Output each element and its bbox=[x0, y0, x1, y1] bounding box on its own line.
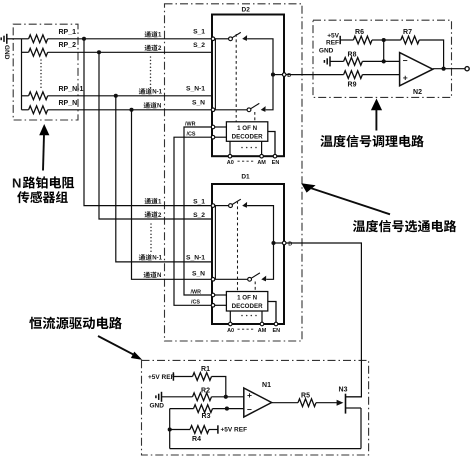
wire R3 to N1 inverting bbox=[213, 408, 244, 410]
svg-text:+5V REF: +5V REF bbox=[221, 427, 248, 434]
resistor R3 bbox=[194, 405, 213, 420]
wire GND to sensor bus bbox=[7, 38, 22, 40]
resistor R9 bbox=[344, 71, 363, 89]
label D1 bbox=[241, 173, 250, 180]
wire N1 output to R5 bbox=[272, 402, 298, 404]
svg-text:R9: R9 bbox=[348, 81, 357, 88]
wire N2 output bbox=[433, 68, 465, 70]
wire R7 feedback to output bbox=[419, 40, 443, 69]
svg-text:RP_1: RP_1 bbox=[59, 29, 77, 36]
D2 input column line bbox=[214, 39, 216, 110]
pin D output (D1) bbox=[282, 241, 286, 245]
label 通道N (D2 input) bbox=[144, 102, 162, 110]
ellipsis A0-AM labels D2 bbox=[238, 161, 254, 162]
svg-text:R1: R1 bbox=[201, 366, 210, 373]
svg-text:+: + bbox=[247, 390, 252, 400]
label 恒流源驱动电路 bbox=[29, 317, 122, 330]
svg-text:D2: D2 bbox=[242, 7, 251, 14]
svg-text:S_1: S_1 bbox=[193, 29, 205, 36]
label 通道2 (D2 input) bbox=[145, 45, 162, 53]
wire inverting node to N2 bbox=[384, 60, 400, 62]
svg-text:R3: R3 bbox=[202, 413, 211, 420]
D1 input column line bbox=[214, 206, 216, 280]
svg-text:RP_N-1: RP_N-1 bbox=[59, 86, 84, 93]
svg-text:S_N-1: S_N-1 bbox=[186, 255, 205, 262]
svg-text:S_N-1: S_N-1 bbox=[186, 86, 205, 93]
label GND rotated bbox=[3, 45, 10, 60]
svg-text:N: N bbox=[12, 175, 21, 190]
wire channel N drop to D1 bbox=[132, 110, 213, 279]
svg-text:N-1: N-1 bbox=[152, 255, 162, 262]
arrow to selector circuit bbox=[301, 183, 390, 214]
op-amp N2 bbox=[400, 53, 433, 86]
wire D2 bus to pin bbox=[273, 74, 284, 76]
pin A0 (D1) bbox=[227, 311, 234, 334]
label 通道1 (D2 input) bbox=[145, 31, 162, 39]
pin /CS (D2) bbox=[187, 132, 227, 140]
ellipsis decoder D2 pins bbox=[241, 147, 257, 149]
pin /WR (D1) bbox=[191, 289, 227, 297]
svg-text:N: N bbox=[157, 103, 161, 110]
wire R8 to inverting node bbox=[362, 60, 383, 62]
wire R1 to noninverting node bbox=[212, 377, 226, 397]
wire R9 to N2 noninverting bbox=[362, 74, 399, 76]
svg-text:RP_N: RP_N bbox=[59, 100, 78, 107]
node junction channel 1 bbox=[82, 37, 86, 41]
wire R4 lead bbox=[170, 429, 190, 431]
svg-text:A0: A0 bbox=[227, 328, 234, 334]
svg-text:+: + bbox=[403, 72, 408, 82]
pin D output (D2) bbox=[282, 73, 286, 77]
multiplexer D1 box bbox=[212, 184, 284, 324]
svg-text:GND: GND bbox=[319, 48, 334, 55]
wire D2 common bus top bbox=[247, 39, 273, 75]
node junction channel N bbox=[129, 108, 133, 112]
node inverting input N2 bbox=[382, 59, 386, 63]
svg-text:RP_2: RP_2 bbox=[59, 42, 77, 49]
node A (R6/R7 junction) bbox=[382, 38, 386, 42]
wire R6 to node A bbox=[372, 39, 384, 41]
svg-text:DECODER: DECODER bbox=[232, 303, 263, 310]
resistor RP_N-1 bbox=[22, 86, 84, 100]
label N1 bbox=[262, 382, 271, 389]
ground GND (conditioning) bbox=[319, 48, 334, 67]
arrow to current source circuit bbox=[98, 336, 142, 360]
svg-text:+5V: +5V bbox=[327, 33, 339, 40]
wire channel N-1 drop to D1 bbox=[116, 96, 212, 262]
svg-text:D: D bbox=[287, 73, 291, 79]
wire R4 to +5V REF bbox=[209, 429, 218, 431]
wire node A to R7 bbox=[384, 39, 401, 41]
wire channel N (sensor to D2 S_N) bbox=[48, 109, 212, 111]
wire /WR bus (D2 to D1) bbox=[184, 127, 212, 295]
svg-text:R8: R8 bbox=[348, 51, 357, 58]
resistor RP_1 bbox=[22, 29, 77, 43]
pin AM (D1) bbox=[258, 311, 267, 334]
wire +5V REF to R1 bbox=[173, 376, 192, 378]
wire R2 to N1 noninverting bbox=[212, 396, 244, 398]
resistor R7 bbox=[401, 29, 419, 44]
power +5V REF (R4) bbox=[218, 425, 247, 433]
label 温度信号调理电路 bbox=[320, 135, 423, 147]
pin S_N (D2) bbox=[192, 100, 215, 112]
svg-text:1 OF N: 1 OF N bbox=[237, 295, 257, 302]
sensor group box (dash-dot) bbox=[13, 24, 78, 120]
switch S_N (D2) bbox=[215, 103, 266, 112]
svg-text:EN: EN bbox=[272, 328, 280, 334]
pin S_2 (D2) bbox=[193, 42, 205, 49]
svg-text:S_2: S_2 bbox=[193, 212, 205, 219]
wire D1 bus to pin bbox=[274, 242, 285, 244]
ellipsis sensor box bbox=[40, 59, 42, 88]
resistor R1 bbox=[193, 366, 212, 380]
wire +5V REF to R6 bbox=[340, 39, 353, 41]
node D2 output junction bbox=[271, 73, 275, 77]
svg-text:/WR: /WR bbox=[191, 289, 202, 295]
svg-text:−: − bbox=[247, 405, 252, 415]
svg-text:R6: R6 bbox=[355, 29, 364, 36]
node R4 junction bbox=[168, 427, 172, 431]
label D (D1 output) bbox=[288, 242, 292, 248]
selector circuit box (dash-dot) bbox=[165, 4, 303, 341]
svg-text:N3: N3 bbox=[339, 387, 348, 394]
switch S_1 (D1) bbox=[215, 199, 247, 208]
label 通道N-1 (D1 input) bbox=[139, 254, 163, 262]
decoder D2 (1 OF N DECODER) bbox=[226, 122, 267, 142]
svg-text:S_1: S_1 bbox=[193, 199, 205, 206]
resistor R6 bbox=[353, 29, 372, 44]
D2 control dashed line S_1 bbox=[235, 34, 237, 122]
wire channel 2 (sensor to D2 S_2) bbox=[48, 51, 212, 53]
wire channel 1 drop to D1 bbox=[84, 39, 212, 206]
wire node A to inverting node bbox=[383, 40, 385, 61]
ellipsis channels top bbox=[150, 56, 152, 88]
D1 control dashed line S_N bbox=[254, 282, 256, 292]
wire D2 output to R9 bbox=[286, 74, 343, 76]
ellipsis A0-AM labels D1 bbox=[238, 329, 254, 330]
svg-text:/CS: /CS bbox=[191, 300, 200, 306]
arrow to sensor group bbox=[39, 124, 49, 171]
wire channel 1 (sensor to D2 S_1) bbox=[48, 38, 212, 40]
svg-text:−: − bbox=[403, 56, 408, 66]
pin S_N (D1) bbox=[192, 270, 215, 281]
transistor N3 bbox=[337, 387, 362, 414]
svg-text:S_N: S_N bbox=[192, 100, 205, 107]
wire GND to R8 bbox=[330, 60, 344, 62]
svg-text:AM: AM bbox=[257, 160, 266, 166]
pin AM (D2) bbox=[257, 141, 266, 166]
decoder D1 (1 OF N DECODER) bbox=[226, 292, 267, 312]
resistor R5 bbox=[298, 393, 316, 407]
resistor R2 bbox=[193, 388, 212, 401]
terminal output (conditioning) bbox=[465, 67, 469, 71]
node noninverting input N1 bbox=[224, 395, 228, 399]
svg-text:A0: A0 bbox=[227, 160, 234, 166]
ellipsis channels lower bbox=[150, 223, 152, 252]
node junction channel N-1 bbox=[114, 94, 118, 98]
svg-text:N: N bbox=[157, 272, 161, 279]
current source box (dash-dot) bbox=[142, 360, 369, 455]
wire D1 common bus bottom bbox=[266, 243, 273, 279]
D2 control dashed line S_N bbox=[254, 112, 256, 122]
pin /CS (D1) bbox=[191, 300, 226, 308]
ground GND (sensor group) bbox=[1, 34, 7, 44]
svg-text:R4: R4 bbox=[192, 436, 201, 443]
label N路铂电阻传感器组 bbox=[12, 175, 74, 203]
pin EN (D1) bbox=[268, 302, 280, 335]
wire sensor bus bbox=[21, 39, 23, 110]
svg-text:D1: D1 bbox=[241, 173, 250, 180]
svg-text:REF: REF bbox=[326, 40, 339, 47]
svg-text:S_2: S_2 bbox=[193, 42, 205, 49]
pin A0 (D2) bbox=[227, 141, 234, 166]
wire D1 common bus top bbox=[247, 206, 273, 243]
svg-text:DECODER: DECODER bbox=[232, 134, 263, 141]
svg-text:1 OF N: 1 OF N bbox=[237, 125, 257, 132]
wire GND to R2 bbox=[162, 396, 193, 398]
node output junction (feedback) bbox=[442, 67, 446, 71]
switch S_N (D1) bbox=[215, 273, 266, 282]
D1 control dashed line S_1 bbox=[237, 201, 239, 292]
svg-text:R2: R2 bbox=[201, 388, 210, 395]
svg-text:AM: AM bbox=[258, 328, 267, 334]
pin /WR (D2) bbox=[185, 121, 226, 129]
pin S_1 (D2) bbox=[193, 29, 215, 41]
ellipsis decoder D1 pins bbox=[241, 315, 257, 317]
wire R5 to N3 gate bbox=[316, 402, 339, 404]
wire D1 output to N3 drain bbox=[286, 243, 361, 397]
svg-text:GND: GND bbox=[3, 45, 10, 60]
wire feedback to R3 bbox=[170, 408, 194, 410]
resistor RP_2 bbox=[22, 42, 77, 56]
node D1 output junction bbox=[271, 241, 275, 245]
label 通道1 (D1 input) bbox=[145, 198, 162, 206]
label 通道2 (D1 input) bbox=[145, 211, 162, 219]
conditioning circuit box (dash-dot) bbox=[313, 20, 452, 97]
svg-text:+5V REF: +5V REF bbox=[148, 374, 175, 381]
resistor R8 bbox=[344, 51, 363, 65]
pin S_N-1 (D2) bbox=[186, 86, 205, 93]
pin S_1 (D1) bbox=[193, 199, 215, 208]
pin S_2 (D1) bbox=[193, 212, 205, 219]
multiplexer D2 box bbox=[212, 15, 284, 157]
label D (D2 output) bbox=[287, 73, 291, 79]
svg-text:EN: EN bbox=[272, 160, 280, 166]
resistor R4 bbox=[190, 426, 209, 443]
arrow to conditioning circuit bbox=[371, 99, 382, 131]
switch S_1 (D2) bbox=[215, 32, 247, 41]
wire left feedback vertical bbox=[169, 409, 171, 449]
wire N3 source down bbox=[360, 408, 362, 449]
svg-text:R7: R7 bbox=[403, 29, 412, 36]
label N2 bbox=[413, 89, 422, 96]
svg-text:R5: R5 bbox=[301, 393, 310, 400]
wire channel 2 drop to D1 bbox=[99, 52, 212, 219]
wire D2 common bus bottom bbox=[266, 75, 273, 110]
pin S_N-1 (D1) bbox=[186, 255, 205, 262]
wire /CS bus (D2 to D1) bbox=[174, 137, 212, 305]
op-amp N1 bbox=[244, 388, 272, 417]
svg-text:N1: N1 bbox=[262, 382, 271, 389]
label 通道N-1 (D2 input) bbox=[139, 88, 163, 96]
resistor RP_N bbox=[22, 100, 78, 114]
pin EN (D2) bbox=[268, 132, 280, 166]
label 温度信号选通电路 bbox=[353, 220, 456, 232]
power +5V REF (R1) bbox=[148, 372, 175, 381]
label D2 bbox=[242, 7, 251, 14]
node inverting input N1 bbox=[225, 407, 229, 411]
svg-text:GND: GND bbox=[150, 402, 165, 409]
node junction channel 2 bbox=[97, 50, 101, 54]
ground GND (current source) bbox=[150, 392, 165, 410]
svg-text:N-1: N-1 bbox=[152, 89, 162, 96]
wire channel N-1 (sensor to D2 S_N-1) bbox=[48, 95, 212, 97]
svg-text:N2: N2 bbox=[413, 89, 422, 96]
svg-text:S_N: S_N bbox=[192, 270, 205, 277]
wire bottom return bbox=[170, 448, 361, 450]
label 通道N (D1 input) bbox=[144, 272, 162, 280]
power +5V REF (conditioning) bbox=[326, 33, 340, 47]
